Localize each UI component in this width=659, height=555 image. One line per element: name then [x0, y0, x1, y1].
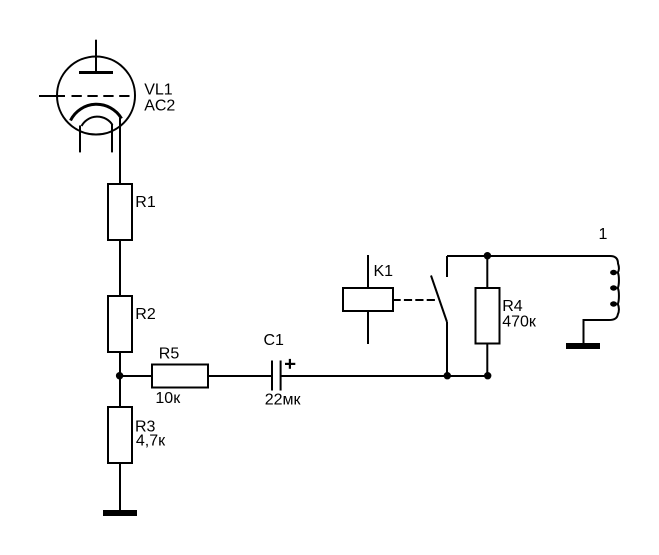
capacitor C1 plate right [280, 361, 282, 391]
wire R5 to C1 [208, 375, 272, 377]
top wire [447, 255, 606, 257]
cathode arc [71, 104, 122, 120]
relay lead bottom [367, 311, 369, 344]
polarity plus sign [285, 359, 295, 369]
svg-text:AC2: AC2 [144, 98, 175, 115]
svg-text:1: 1 [599, 226, 608, 243]
junction node R4 bottom [484, 372, 491, 379]
resistor R1 [108, 184, 132, 240]
svg-text:R1: R1 [135, 194, 156, 211]
heater leg left [79, 126, 81, 153]
svg-text:10к: 10к [155, 390, 181, 407]
svg-text:4,7к: 4,7к [136, 433, 166, 450]
wire C1 to switch node [281, 375, 487, 377]
capacitor C1 plate left [271, 361, 273, 391]
wire R2-node-R3 [119, 352, 121, 407]
relay K1 coil box [343, 288, 393, 311]
svg-text:R5: R5 [159, 345, 180, 362]
grid lead [39, 95, 65, 97]
wire node to R5 [120, 375, 152, 377]
coil knot 2 [610, 285, 617, 290]
switch bottom lead [446, 322, 448, 376]
coil knot 3 [610, 301, 617, 306]
svg-text:K1: K1 [374, 263, 394, 280]
heater leg right [111, 125, 113, 153]
svg-text:470к: 470к [502, 313, 537, 330]
inductor coil 1 [584, 256, 619, 343]
junction node R4 top [484, 252, 491, 259]
wire R1-R2 [119, 240, 121, 296]
vacuum tube VL1 envelope [57, 57, 135, 135]
junction node at divider [116, 372, 123, 379]
mechanical link (dashed) [393, 299, 436, 301]
coil knot 1 [610, 270, 617, 275]
svg-text:R2: R2 [135, 306, 156, 323]
svg-text:22мк: 22мк [265, 392, 302, 409]
ground bar left [103, 510, 137, 516]
svg-text:VL1: VL1 [144, 82, 173, 99]
resistor R3 [108, 407, 132, 463]
switch fixed contact lead [446, 256, 448, 277]
switch blade [431, 276, 447, 323]
ground bar right [566, 343, 600, 349]
wire R3-ground [119, 463, 121, 510]
junction node switch bottom [444, 372, 451, 379]
R4 top lead [486, 256, 488, 288]
cathode lead wire [119, 118, 121, 184]
grid (dashed) [72, 95, 136, 97]
R4 bottom lead [486, 344, 488, 377]
resistor R5 [152, 365, 208, 388]
anode lead [95, 40, 97, 73]
svg-text:C1: C1 [264, 332, 285, 349]
resistor R4 [476, 288, 500, 344]
anode plate [79, 71, 113, 74]
heater arc [82, 117, 113, 126]
resistor R2 [108, 296, 132, 352]
relay lead top [367, 255, 369, 288]
svg-text:R4: R4 [502, 298, 523, 315]
